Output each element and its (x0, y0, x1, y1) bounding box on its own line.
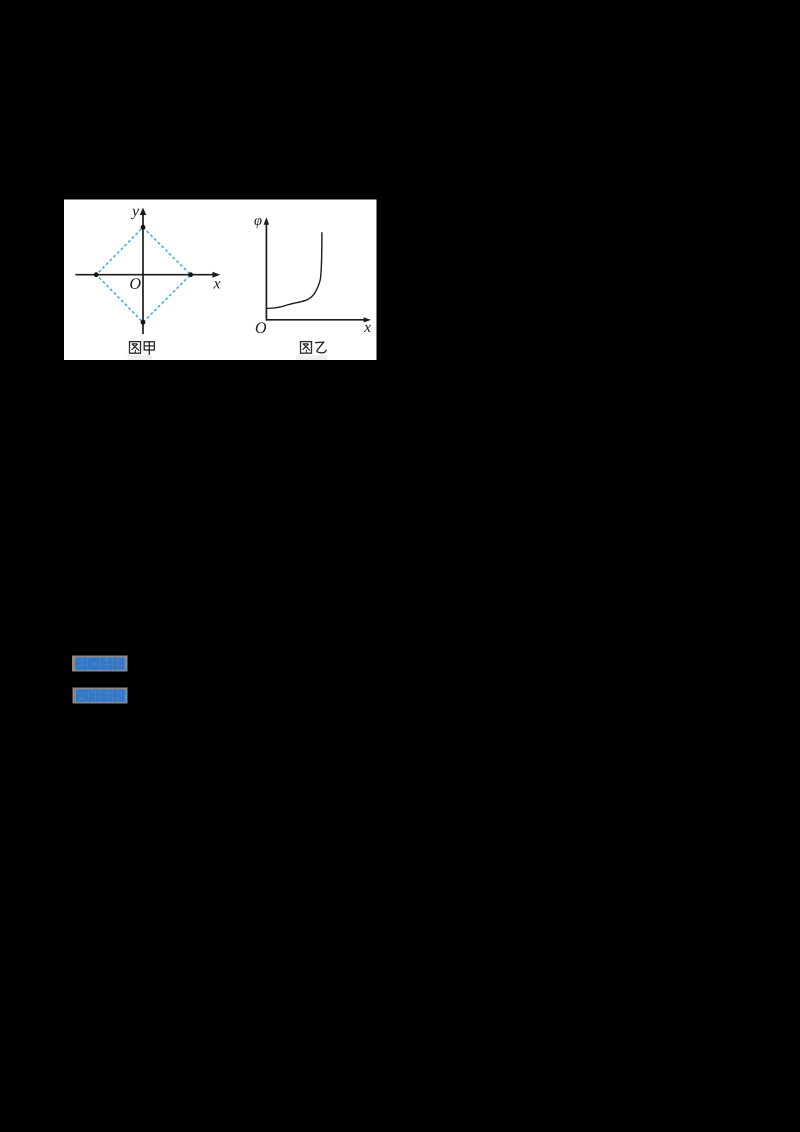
label x (graph 乙) (364, 325, 371, 332)
phi axis (graph 乙 vertical) (265, 222, 267, 321)
answer button 1 (gray box) (72, 656, 128, 672)
图 box (301, 342, 312, 354)
answer button 2 blue text glyphs (76, 690, 125, 702)
图 inner strokes (132, 344, 139, 352)
answer button 1 blue text glyphs (75, 658, 124, 670)
answer button 2 (gray box) (73, 688, 128, 704)
node dot right (188, 272, 193, 277)
label x (graph 甲) (213, 281, 220, 288)
node dot bottom (141, 320, 146, 325)
甲 (144, 342, 154, 350)
caption 图乙 drawn as strokes (301, 342, 327, 354)
faint strip under caption 图甲 (128, 355, 153, 360)
dashed diamond (blue) in graph 甲 (96, 227, 190, 322)
phi-x curve (267, 232, 322, 308)
x axis arrowhead (212, 272, 220, 278)
乙 (316, 342, 327, 353)
图 box (130, 342, 141, 354)
node dot left (94, 272, 99, 277)
图 inner strokes (303, 344, 310, 352)
node dot top (141, 225, 146, 230)
white figure panel (64, 200, 377, 361)
phi axis arrowhead (264, 217, 270, 225)
y axis arrowhead (140, 208, 147, 215)
faint strip under caption 图乙 (296, 355, 328, 360)
caption 图甲 drawn as strokes (130, 342, 155, 355)
label O (graph 乙) (256, 322, 266, 333)
label O (graph 甲) (130, 278, 140, 289)
x axis arrowhead (364, 317, 371, 322)
x axis (graph 乙 horizontal) (266, 319, 364, 321)
label y (131, 209, 139, 219)
label phi (254, 218, 261, 228)
y axis of graph 甲 (142, 213, 144, 335)
x axis of graph 甲 (75, 274, 213, 276)
